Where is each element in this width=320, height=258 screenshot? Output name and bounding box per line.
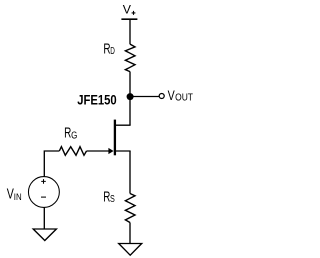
- transistor Q1 gate arrow: [108, 148, 113, 154]
- wire RD to drain node: [129, 72, 131, 126]
- wire VIN to ground: [43, 207, 45, 229]
- source VIN circle: [28, 177, 59, 208]
- wire node to VOUT: [130, 96, 159, 98]
- source VIN plus sign: [41, 179, 46, 184]
- resistor RD: [125, 44, 135, 72]
- wire source to RS: [129, 151, 131, 194]
- node V+ label: [123, 3, 136, 17]
- label RS: [103, 190, 115, 206]
- ground (right): [119, 244, 142, 256]
- svg-text:V: V: [123, 3, 132, 17]
- label VOUT: [168, 87, 193, 103]
- resistor RS: [125, 194, 135, 223]
- svg-text:IN: IN: [14, 192, 22, 202]
- label RG: [64, 125, 77, 141]
- transistor Q1 source lead: [115, 150, 131, 152]
- node VOUT terminal circle: [159, 94, 164, 99]
- wire V+ bar to RD: [129, 19, 131, 44]
- svg-text:S: S: [110, 194, 115, 205]
- svg-text:OUT: OUT: [175, 92, 193, 103]
- wire gate to RG: [87, 150, 110, 152]
- ground (left): [33, 229, 56, 241]
- svg-text:JFE150: JFE150: [77, 92, 117, 108]
- node junction dot: [127, 93, 134, 100]
- power rail V+ bar: [121, 18, 137, 20]
- transistor Q1 channel bar: [114, 120, 116, 156]
- resistor RG: [59, 147, 86, 156]
- label RD: [103, 41, 115, 57]
- wire RG to VIN source: [44, 151, 59, 177]
- label VIN: [7, 186, 22, 202]
- svg-text:D: D: [110, 46, 115, 57]
- wire RS to ground: [129, 223, 131, 244]
- transistor Q1 JFE150: drain lead: [115, 124, 131, 126]
- source VIN minus sign: [41, 196, 46, 198]
- svg-text:G: G: [71, 130, 77, 141]
